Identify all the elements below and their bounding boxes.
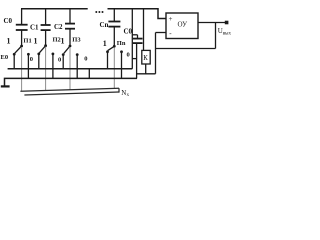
- capacitor C0 (feedback): [133, 35, 143, 79]
- svg-text:C0: C0: [124, 28, 133, 36]
- wire ground bus: [5, 78, 138, 85]
- key K wire from bus: [143, 9, 145, 51]
- wire inverting input: [156, 32, 167, 34]
- svg-text:E0: E0: [1, 54, 9, 61]
- ellipsis continuation dots: [95, 11, 103, 13]
- wire C0 top stub: [132, 34, 137, 36]
- label Nx: [121, 89, 129, 98]
- wire K bottom: [145, 64, 147, 74]
- svg-text:0: 0: [58, 57, 61, 64]
- svg-text:Пn: Пn: [117, 40, 126, 47]
- svg-text:Cn: Cn: [100, 21, 109, 29]
- svg-text:0: 0: [84, 56, 87, 63]
- wire bottom link: [137, 73, 156, 75]
- svg-text:1: 1: [7, 37, 11, 46]
- svg-text:0: 0: [127, 52, 130, 59]
- op-amp U1 box: [166, 13, 198, 39]
- svg-text:+: +: [169, 15, 173, 23]
- svg-text:1: 1: [34, 37, 38, 46]
- ground: [1, 85, 10, 87]
- control line P2: [45, 47, 47, 91]
- wire feedback left vertical: [155, 33, 157, 74]
- switch P3: [62, 45, 79, 79]
- wire C0 bottom stub: [132, 58, 136, 60]
- switch P2: [37, 44, 54, 78]
- svg-text:N: N: [121, 89, 126, 97]
- capacitor C0: [16, 9, 28, 46]
- control line P1: [21, 47, 23, 91]
- wire feedback bottom: [156, 48, 216, 50]
- output terminal: [225, 21, 229, 25]
- svg-text:x: x: [127, 92, 130, 98]
- svg-text:1: 1: [61, 37, 65, 46]
- wire feedback right vertical: [215, 23, 217, 49]
- key K box: [142, 50, 150, 64]
- svg-text:C0: C0: [4, 17, 13, 25]
- wire code bus line A: [20, 88, 119, 91]
- capacitor Cn: [108, 9, 120, 46]
- wire top summing bus segment 1: [21, 8, 88, 10]
- svg-text:вых: вых: [223, 32, 232, 37]
- svg-text:К: К: [143, 55, 148, 62]
- node feedback branch vertical: [131, 9, 133, 69]
- wire output: [198, 22, 225, 24]
- svg-text:C1: C1: [30, 24, 39, 32]
- switch Pn: [106, 45, 123, 79]
- svg-text:0: 0: [30, 56, 33, 63]
- control line P3: [69, 47, 71, 90]
- wire code bus end: [118, 88, 120, 92]
- svg-text:П3: П3: [72, 37, 81, 44]
- wire code bus line B: [24, 92, 119, 95]
- switch P1: [13, 45, 30, 79]
- label Uvyh: [218, 27, 232, 36]
- capacitor C1: [41, 9, 51, 46]
- wire E0 bus: [8, 68, 133, 70]
- wire top summing bus segment 2 into op-amp input: [108, 9, 167, 19]
- svg-text:П1: П1: [23, 37, 31, 44]
- svg-text:C2: C2: [54, 23, 63, 31]
- capacitor C2: [65, 9, 75, 46]
- control line Pn: [113, 47, 115, 88]
- wire bus tie: [88, 69, 90, 79]
- svg-text:ОУ: ОУ: [178, 21, 188, 29]
- svg-text:1: 1: [103, 39, 107, 48]
